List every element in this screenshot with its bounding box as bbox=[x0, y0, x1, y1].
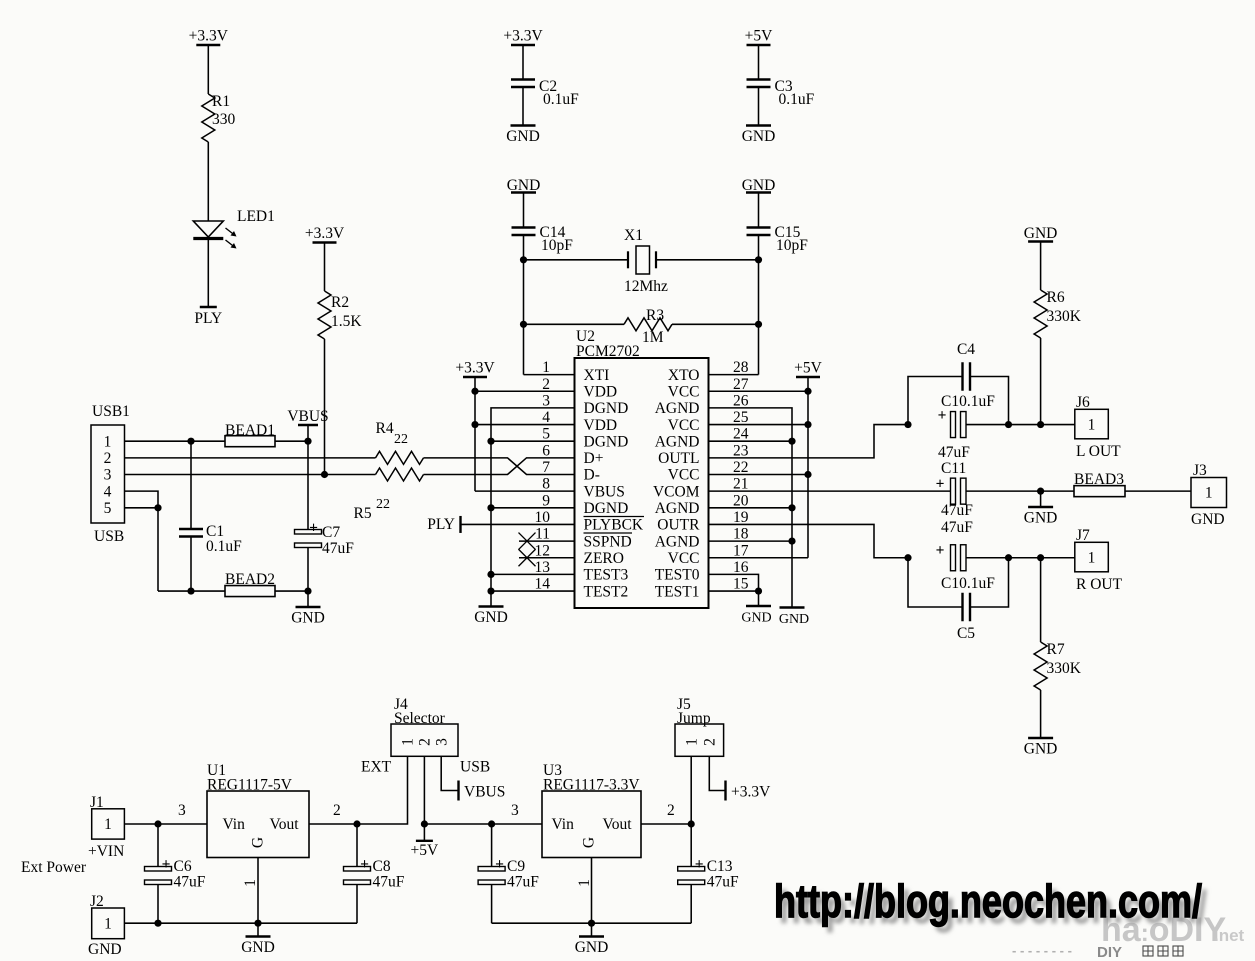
svg-text:J1: J1 bbox=[90, 794, 104, 811]
svg-text:GND: GND bbox=[474, 609, 508, 626]
svg-text:10pF: 10pF bbox=[541, 237, 573, 254]
pin 11 SSPND bbox=[535, 526, 632, 551]
svg-text:1: 1 bbox=[576, 879, 593, 887]
svg-text:J3: J3 bbox=[1193, 462, 1207, 479]
svg-text:G: G bbox=[581, 837, 598, 848]
svg-text:VCC: VCC bbox=[668, 550, 700, 567]
wire TEST0/TEST1 bbox=[709, 574, 763, 606]
wire pin1 XTI bbox=[524, 374, 575, 376]
pin 3 DGND bbox=[542, 392, 628, 417]
pin 26 AGND bbox=[655, 392, 749, 417]
wire L OUT row bbox=[966, 421, 1075, 428]
svg-text:4: 4 bbox=[542, 409, 550, 426]
pin 17 VCC bbox=[668, 542, 749, 567]
svg-text:4: 4 bbox=[104, 483, 112, 500]
ground (U1) bbox=[241, 923, 275, 956]
power +5V (C3) bbox=[745, 28, 773, 46]
wire bbox=[324, 243, 326, 292]
svg-text:47uF: 47uF bbox=[373, 874, 405, 891]
svg-text:Vout: Vout bbox=[270, 816, 300, 833]
pin 15 TEST1 bbox=[655, 576, 749, 601]
resistor R4 bbox=[376, 420, 424, 464]
svg-text:8: 8 bbox=[542, 476, 550, 493]
no-connect pin11 SSPND bbox=[519, 533, 575, 550]
svg-text:47uF: 47uF bbox=[507, 874, 539, 891]
port PLY bbox=[194, 307, 222, 327]
svg-text:PLYBCK: PLYBCK bbox=[584, 517, 644, 534]
svg-text:23: 23 bbox=[733, 442, 749, 459]
svg-text:OUTR: OUTR bbox=[657, 517, 700, 534]
wire bbox=[758, 45, 760, 80]
label USB bbox=[460, 759, 490, 776]
svg-text:+3.3V: +3.3V bbox=[189, 28, 229, 45]
pin 27 VCC bbox=[668, 376, 749, 401]
svg-text:1: 1 bbox=[1088, 416, 1096, 433]
svg-text:1: 1 bbox=[683, 738, 700, 746]
power VBUS bbox=[287, 408, 328, 441]
power +3.3V (chip) bbox=[455, 360, 495, 378]
svg-text:J7: J7 bbox=[1076, 527, 1090, 544]
regulator U1 REG1117-5V bbox=[207, 762, 309, 858]
pin 9 DGND bbox=[542, 492, 628, 517]
wire bbox=[275, 438, 312, 445]
svg-text:GND: GND bbox=[291, 610, 325, 627]
wire VCOM row bbox=[966, 488, 1074, 495]
node OUTR junction bbox=[904, 554, 911, 561]
ground (R7 bottom) bbox=[1024, 738, 1058, 758]
capacitor C1 bbox=[179, 441, 242, 591]
svg-text:20: 20 bbox=[733, 492, 749, 509]
svg-text:VDD: VDD bbox=[584, 383, 618, 400]
svg-text:47uF: 47uF bbox=[322, 540, 354, 557]
capacitor C10 (47uF) bbox=[938, 393, 996, 461]
svg-text:0.1uF: 0.1uF bbox=[779, 91, 815, 108]
wire bbox=[758, 235, 760, 375]
svg-text:VBUS: VBUS bbox=[287, 408, 328, 425]
wire OUTR bbox=[709, 524, 909, 557]
connector USB1 bbox=[91, 403, 130, 545]
svg-text:26: 26 bbox=[733, 392, 749, 409]
wire USB pins4-5 bbox=[125, 491, 162, 591]
svg-text:LED1: LED1 bbox=[237, 208, 275, 225]
svg-text:VBUS: VBUS bbox=[464, 784, 505, 801]
pin 20 AGND bbox=[655, 492, 749, 517]
pin 5 DGND bbox=[542, 426, 628, 451]
pin 19 OUTR bbox=[657, 509, 748, 534]
wire U3 gnd pin bbox=[576, 858, 593, 924]
wire bbox=[1040, 338, 1042, 425]
wire USB pin1 bbox=[125, 440, 226, 442]
svg-text:TEST3: TEST3 bbox=[584, 567, 629, 584]
svg-text:GND: GND bbox=[506, 128, 540, 145]
connector J7 bbox=[1075, 527, 1123, 593]
svg-text:1: 1 bbox=[104, 916, 112, 933]
svg-text:1: 1 bbox=[104, 816, 112, 833]
svg-text:G: G bbox=[250, 837, 267, 848]
connector J3 bbox=[1191, 462, 1227, 528]
svg-text:R6: R6 bbox=[1047, 289, 1065, 306]
svg-text:http://blog.neochen.com/: http://blog.neochen.com/ bbox=[774, 875, 1202, 927]
svg-text:BEAD3: BEAD3 bbox=[1074, 471, 1124, 488]
capacitor C15 bbox=[747, 224, 809, 254]
svg-text:VCC: VCC bbox=[668, 417, 700, 434]
svg-text:GND: GND bbox=[1024, 510, 1058, 527]
power +3.3V (R1 top) bbox=[189, 28, 229, 46]
capacitor C4 (0.1uF) bbox=[908, 341, 1009, 425]
regulator U3 REG1117-3.3V bbox=[542, 762, 641, 858]
ground (DGND bus) bbox=[474, 607, 508, 627]
capacitor C2 bbox=[511, 78, 579, 108]
svg-text:47uF: 47uF bbox=[707, 874, 739, 891]
wire R OUT row bbox=[966, 554, 1075, 561]
svg-text:R7: R7 bbox=[1047, 641, 1065, 658]
wire bbox=[758, 87, 760, 126]
svg-text:C5: C5 bbox=[957, 625, 975, 642]
resistor R3 bbox=[624, 307, 672, 346]
ferrite BEAD1 bbox=[225, 422, 275, 447]
node OUTL junction bbox=[904, 421, 911, 428]
ferrite BEAD3 bbox=[1074, 471, 1125, 497]
power +5V (node) bbox=[411, 824, 439, 859]
wire USB pin2 (D-) bbox=[125, 457, 376, 459]
svg-text:1M: 1M bbox=[642, 329, 664, 346]
pin 4 VDD bbox=[542, 409, 617, 434]
svg-text:+: + bbox=[162, 856, 171, 873]
wire J1 to U1 bbox=[125, 802, 208, 828]
svg-text:R1: R1 bbox=[212, 93, 230, 110]
svg-text:J2: J2 bbox=[90, 893, 104, 910]
svg-text:2: 2 bbox=[104, 450, 112, 467]
svg-text:10pF: 10pF bbox=[776, 237, 808, 254]
wire D+/D- crossover bbox=[424, 458, 575, 475]
svg-text:13: 13 bbox=[535, 559, 551, 576]
svg-text:24: 24 bbox=[733, 426, 749, 443]
pin 16 TEST0 bbox=[655, 559, 749, 584]
svg-text:21: 21 bbox=[733, 476, 749, 493]
svg-text:2: 2 bbox=[542, 376, 550, 393]
wire bbox=[522, 45, 524, 80]
svg-text:9: 9 bbox=[542, 492, 550, 509]
svg-text:22: 22 bbox=[376, 497, 390, 512]
resistor R1 bbox=[202, 93, 236, 142]
svg-text:16: 16 bbox=[733, 559, 749, 576]
svg-text:L OUT: L OUT bbox=[1076, 443, 1121, 460]
svg-text:C8: C8 bbox=[373, 858, 391, 875]
pin 23 OUTL bbox=[658, 442, 749, 467]
svg-text:0.1uF: 0.1uF bbox=[206, 538, 242, 555]
svg-text:GND: GND bbox=[779, 612, 809, 627]
svg-text:5: 5 bbox=[104, 500, 112, 517]
svg-text:GND: GND bbox=[575, 939, 609, 956]
wire U3 out bbox=[641, 802, 695, 828]
port PLY (pin10) bbox=[427, 516, 574, 533]
wire OUTL bbox=[709, 425, 909, 458]
capacitor C12 (47uF) bbox=[936, 519, 996, 592]
svg-text:0.1uF: 0.1uF bbox=[543, 91, 579, 108]
svg-text:18: 18 bbox=[733, 526, 749, 543]
svg-text:19: 19 bbox=[733, 509, 749, 526]
svg-text:14: 14 bbox=[535, 576, 551, 593]
watermark URL shadow bbox=[779, 881, 1207, 933]
wire bbox=[275, 587, 312, 607]
svg-text:C10.1uF: C10.1uF bbox=[941, 393, 995, 410]
ground (VCOM) bbox=[1024, 491, 1058, 526]
wire bbox=[321, 339, 328, 478]
svg-text:+5V: +5V bbox=[411, 842, 439, 859]
capacitor C5 (0.1uF) bbox=[908, 558, 1009, 642]
wire bbox=[524, 323, 625, 325]
pin 2 VDD bbox=[542, 376, 617, 401]
capacitor C8 bbox=[344, 824, 405, 923]
ground (C3) bbox=[742, 126, 776, 146]
node AGND junctions bbox=[788, 438, 795, 545]
svg-text:VCC: VCC bbox=[668, 383, 700, 400]
resistor R5 bbox=[354, 468, 424, 522]
wire U1 out bbox=[309, 756, 408, 827]
svg-text:XTI: XTI bbox=[584, 367, 610, 384]
op-amp U2 PCM2702 body bbox=[575, 328, 709, 608]
svg-text:2: 2 bbox=[702, 738, 719, 746]
wire bbox=[1040, 242, 1042, 291]
svg-text:1: 1 bbox=[242, 879, 259, 887]
no-connect pin12 ZERO bbox=[519, 549, 575, 566]
pin 18 AGND bbox=[655, 526, 749, 551]
node C1 top bbox=[187, 438, 194, 445]
power +3.3V (C2) bbox=[503, 28, 543, 46]
svg-text:GND: GND bbox=[88, 941, 122, 958]
pin 25 VCC bbox=[668, 409, 749, 434]
wire J4 pin2 to +5V node bbox=[421, 756, 428, 827]
wire bbox=[523, 235, 525, 375]
svg-text:Ext Power: Ext Power bbox=[21, 859, 87, 876]
svg-text:PLY: PLY bbox=[194, 310, 222, 327]
svg-text:XTO: XTO bbox=[668, 367, 700, 384]
svg-text:12: 12 bbox=[535, 542, 551, 559]
svg-text:3: 3 bbox=[433, 738, 450, 746]
svg-text:5: 5 bbox=[542, 426, 550, 443]
wire bbox=[1040, 690, 1042, 738]
svg-text:+3.3V: +3.3V bbox=[503, 28, 543, 45]
svg-text:28: 28 bbox=[733, 359, 749, 376]
resistor R6 bbox=[1034, 289, 1082, 338]
svg-text:TEST1: TEST1 bbox=[655, 583, 700, 600]
svg-text:AGND: AGND bbox=[655, 500, 700, 517]
wire bbox=[207, 142, 209, 221]
port VBUS (J4 pin3) bbox=[441, 756, 505, 800]
wire AGND bus bbox=[709, 408, 793, 608]
svg-text:C9: C9 bbox=[507, 858, 525, 875]
svg-text:GND: GND bbox=[241, 939, 275, 956]
node DGND junctions bbox=[487, 438, 494, 595]
svg-text:USB: USB bbox=[94, 528, 124, 545]
pin 13 TEST3 bbox=[535, 559, 629, 584]
svg-text:SSPND: SSPND bbox=[584, 533, 632, 550]
wire bbox=[523, 193, 525, 228]
capacitor C13 bbox=[678, 824, 739, 923]
svg-text:+5V: +5V bbox=[794, 360, 822, 377]
label EXT bbox=[361, 759, 392, 776]
svg-text:J6: J6 bbox=[1076, 394, 1090, 411]
svg-text:C13: C13 bbox=[707, 858, 733, 875]
wire bbox=[656, 259, 759, 261]
svg-text:Selector: Selector bbox=[394, 710, 446, 727]
svg-text:TEST2: TEST2 bbox=[584, 583, 629, 600]
svg-text:+: + bbox=[936, 476, 945, 493]
pin 24 AGND bbox=[655, 426, 749, 451]
wire VCOM bbox=[709, 490, 951, 492]
svg-text:GND: GND bbox=[1024, 225, 1058, 242]
capacitor C11 (47uF) bbox=[936, 460, 974, 519]
svg-text:Jump: Jump bbox=[677, 710, 711, 727]
svg-text:TEST0: TEST0 bbox=[655, 567, 700, 584]
svg-text:DGND: DGND bbox=[584, 433, 629, 450]
svg-text:- - - - - - - -: - - - - - - - - bbox=[1012, 943, 1072, 958]
svg-text:47uF: 47uF bbox=[938, 444, 970, 461]
ground (C7/BEAD2) bbox=[291, 607, 325, 627]
svg-text:2: 2 bbox=[667, 802, 675, 819]
svg-text:11: 11 bbox=[535, 526, 550, 543]
wire bbox=[207, 45, 209, 94]
svg-text:47uF: 47uF bbox=[941, 502, 973, 519]
svg-text:R2: R2 bbox=[331, 294, 349, 311]
svg-text:DGND: DGND bbox=[584, 400, 629, 417]
wire bbox=[672, 323, 759, 325]
wire bbox=[524, 259, 629, 261]
svg-text:.net: .net bbox=[1214, 926, 1245, 945]
wire +5V bus bbox=[709, 377, 809, 558]
svg-text:1: 1 bbox=[104, 433, 112, 450]
svg-text:REG1117-3.3V: REG1117-3.3V bbox=[543, 777, 640, 794]
svg-text:DGND: DGND bbox=[584, 500, 629, 517]
node XTI net bbox=[520, 256, 527, 328]
capacitor C3 bbox=[747, 78, 815, 108]
pin 14 TEST2 bbox=[535, 576, 629, 601]
svg-text:22: 22 bbox=[394, 432, 408, 447]
svg-text:OUTL: OUTL bbox=[658, 450, 699, 467]
svg-text:C10.1uF: C10.1uF bbox=[941, 575, 995, 592]
svg-text:PCM2702: PCM2702 bbox=[576, 343, 640, 360]
svg-text:6: 6 bbox=[542, 442, 550, 459]
crystal X1 bbox=[624, 227, 668, 295]
svg-text:C6: C6 bbox=[174, 858, 192, 875]
pin 8 VBUS bbox=[542, 476, 625, 501]
svg-text:47uF: 47uF bbox=[941, 519, 973, 536]
capacitor C14 bbox=[512, 224, 574, 254]
svg-text:R5: R5 bbox=[354, 505, 372, 522]
svg-text:330K: 330K bbox=[1047, 308, 1082, 325]
power +5V (chip) bbox=[794, 360, 822, 378]
wire U1 gnd pin bbox=[242, 858, 259, 924]
wire bottom usb row bbox=[158, 587, 225, 594]
svg-text:47uF: 47uF bbox=[174, 874, 206, 891]
svg-text:1: 1 bbox=[1088, 549, 1096, 566]
svg-text:R4: R4 bbox=[376, 420, 394, 437]
wire bottom rail left bbox=[125, 920, 358, 927]
wire bbox=[1125, 490, 1191, 492]
wire J5 pin1 bbox=[690, 756, 692, 824]
node XTO net bbox=[755, 256, 762, 328]
svg-text:2: 2 bbox=[333, 802, 341, 819]
ground (C15) bbox=[742, 177, 776, 194]
svg-text:R3: R3 bbox=[646, 307, 664, 324]
resistor R2 bbox=[318, 291, 362, 339]
pin 28 XTO bbox=[668, 359, 749, 384]
svg-text:AGND: AGND bbox=[655, 533, 700, 550]
svg-text:D-: D- bbox=[584, 467, 600, 484]
pin 21 VCOM bbox=[653, 476, 749, 501]
wire DGND bus bbox=[491, 408, 575, 607]
svg-text:Vin: Vin bbox=[552, 816, 575, 833]
svg-text:10: 10 bbox=[535, 509, 551, 526]
svg-text:+5V: +5V bbox=[745, 28, 773, 45]
svg-text:3: 3 bbox=[511, 802, 519, 819]
svg-text:EXT: EXT bbox=[361, 759, 392, 776]
svg-text:25: 25 bbox=[733, 409, 749, 426]
svg-text:1: 1 bbox=[400, 738, 417, 746]
pin 7 D- bbox=[542, 459, 600, 484]
connector J4 Selector bbox=[391, 696, 458, 756]
svg-text:+3.3V: +3.3V bbox=[305, 225, 345, 242]
svg-text:+: + bbox=[360, 856, 369, 873]
svg-text:330K: 330K bbox=[1047, 660, 1082, 677]
connector J6 bbox=[1075, 394, 1121, 460]
svg-text:VBUS: VBUS bbox=[584, 483, 625, 500]
svg-text:D+: D+ bbox=[584, 450, 604, 467]
label Ext Power bbox=[21, 859, 87, 876]
svg-text:+: + bbox=[309, 520, 318, 537]
svg-text:AGND: AGND bbox=[655, 433, 700, 450]
watermark URL bbox=[774, 875, 1202, 927]
capacitor C7 bbox=[295, 441, 355, 591]
svg-text:1: 1 bbox=[542, 359, 550, 376]
svg-text:REG1117-5V: REG1117-5V bbox=[207, 777, 293, 794]
connector J5 Jump bbox=[675, 696, 724, 756]
svg-text:3: 3 bbox=[104, 467, 112, 484]
svg-text:GND: GND bbox=[741, 611, 771, 626]
wire pin28 XTO bbox=[709, 374, 759, 376]
ground (R6 top) bbox=[1024, 225, 1058, 242]
wire bbox=[522, 87, 524, 126]
svg-text:12Mhz: 12Mhz bbox=[624, 278, 668, 295]
connector J2 bbox=[88, 893, 124, 958]
svg-text:X1: X1 bbox=[624, 227, 643, 244]
capacitor C6 bbox=[145, 824, 206, 923]
svg-text:USB1: USB1 bbox=[92, 403, 130, 420]
ground (AGND bus) bbox=[779, 608, 809, 628]
svg-text:Vin: Vin bbox=[223, 816, 246, 833]
node VDD junctions bbox=[471, 388, 478, 429]
pin 12 ZERO bbox=[535, 542, 624, 567]
svg-text:USB: USB bbox=[460, 759, 490, 776]
node VCC junctions bbox=[804, 388, 811, 478]
svg-text:330: 330 bbox=[212, 111, 236, 128]
svg-text:+: + bbox=[936, 542, 945, 559]
svg-text:BEAD1: BEAD1 bbox=[225, 422, 275, 439]
svg-text:1: 1 bbox=[1205, 485, 1213, 502]
svg-text:17: 17 bbox=[733, 542, 749, 559]
pin 1 XTI bbox=[542, 359, 609, 384]
svg-text:PLY: PLY bbox=[427, 516, 455, 533]
svg-text:27: 27 bbox=[733, 376, 749, 393]
capacitor C9 bbox=[478, 824, 539, 923]
ground (U3) bbox=[575, 923, 609, 956]
svg-text:1.5K: 1.5K bbox=[331, 313, 362, 330]
LED LED1 bbox=[193, 208, 275, 249]
ground (TEST) bbox=[741, 606, 771, 626]
svg-text:3: 3 bbox=[542, 392, 550, 409]
power +3.3V (R2) bbox=[305, 225, 345, 243]
wire USB pin3 (D+) bbox=[125, 474, 376, 476]
